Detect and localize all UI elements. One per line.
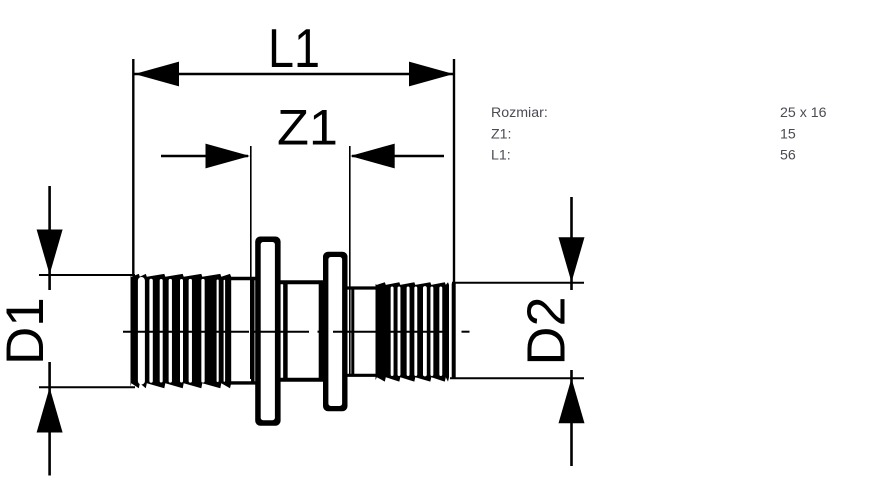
svg-text:Z1:: Z1: xyxy=(491,126,512,142)
svg-text:L1:: L1: xyxy=(491,148,511,164)
svg-text:56: 56 xyxy=(780,148,796,164)
svg-text:Rozmiar:: Rozmiar: xyxy=(491,105,548,121)
svg-text:D1: D1 xyxy=(0,297,55,365)
svg-text:15: 15 xyxy=(780,126,796,142)
svg-text:D2: D2 xyxy=(517,296,577,365)
svg-text:L1: L1 xyxy=(268,17,320,79)
svg-text:25 x 16: 25 x 16 xyxy=(780,105,827,121)
svg-text:Z1: Z1 xyxy=(277,100,338,156)
